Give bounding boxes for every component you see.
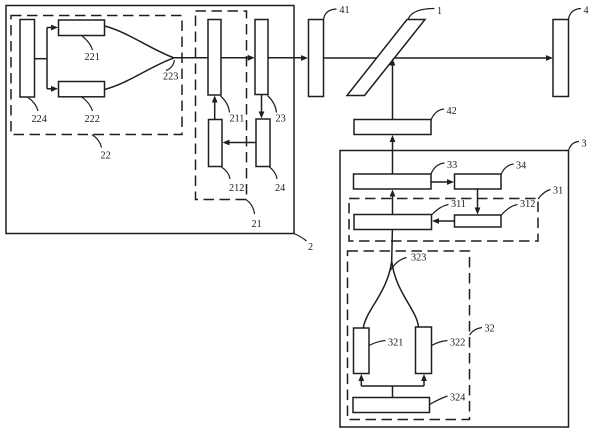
leader 224 xyxy=(28,98,38,112)
arrowhead into 23 xyxy=(248,55,255,61)
svg-text:22: 22 xyxy=(101,151,111,162)
svg-text:211: 211 xyxy=(230,114,245,125)
svg-text:311: 311 xyxy=(451,199,466,210)
svg-text:221: 221 xyxy=(85,52,100,63)
coupler 223 xyxy=(105,26,174,90)
leader 34 xyxy=(501,164,514,175)
leader 211 xyxy=(221,96,230,113)
block 24 xyxy=(256,119,270,167)
dashed box 21 xyxy=(196,11,247,200)
wire: main line 41 to 4 xyxy=(324,57,548,59)
coupler 323 xyxy=(363,230,418,328)
wire: stub from 224 to branch xyxy=(35,58,48,60)
block 33 xyxy=(354,174,432,189)
arrowhead down into 24 xyxy=(259,112,265,119)
leader 1 xyxy=(408,9,435,20)
leader 212 xyxy=(222,167,231,179)
leader 31 xyxy=(538,190,551,200)
wire: 24 to 212 xyxy=(229,142,257,144)
block 42 xyxy=(354,120,431,135)
svg-text:324: 324 xyxy=(450,393,465,404)
leader 2 xyxy=(294,234,307,242)
wire: branch to 222 xyxy=(47,88,52,90)
block 221 xyxy=(59,20,105,36)
block 322 xyxy=(416,327,432,374)
svg-text:222: 222 xyxy=(85,114,100,125)
svg-text:323: 323 xyxy=(411,253,426,264)
leader 21 xyxy=(246,200,255,215)
arrowhead up into 33 xyxy=(390,190,396,197)
leader 22 xyxy=(92,135,102,148)
block 4 xyxy=(553,20,569,97)
dashed box 22 xyxy=(11,16,182,135)
svg-text:34: 34 xyxy=(516,161,526,172)
svg-text:23: 23 xyxy=(276,114,286,125)
leader 223 xyxy=(166,60,175,71)
arrowhead up into 211 xyxy=(212,96,218,103)
svg-text:224: 224 xyxy=(32,114,47,125)
svg-text:322: 322 xyxy=(450,338,465,349)
block 324 xyxy=(353,398,430,413)
box 2 xyxy=(6,6,294,234)
leader 32 xyxy=(470,328,483,336)
leader 24 xyxy=(270,167,278,179)
arrowhead into 311 from 312 xyxy=(432,218,439,224)
leader 221 xyxy=(82,36,93,50)
block 321 xyxy=(354,328,370,374)
block 311 xyxy=(354,215,432,230)
beam splitter 1 xyxy=(347,20,425,96)
wire: 23 down to 24 xyxy=(261,95,263,113)
arrowhead into 221 xyxy=(51,25,58,31)
wire: 312 to 311 xyxy=(438,220,455,222)
wire: branch to 221 xyxy=(47,27,52,29)
arrowhead up into main line from 42 xyxy=(390,59,396,66)
block 222 xyxy=(59,82,105,97)
wire: main line 223 to 23 xyxy=(173,57,249,59)
arrowhead into 34 xyxy=(447,179,454,185)
block 212 xyxy=(209,120,223,167)
arrowhead down into 312 xyxy=(475,208,481,215)
leader 41 xyxy=(324,9,337,20)
wire: branch vertical xyxy=(46,28,48,89)
svg-text:1: 1 xyxy=(437,6,442,17)
svg-text:21: 21 xyxy=(252,219,262,230)
block 41 xyxy=(309,20,324,97)
leader 323 xyxy=(390,258,407,272)
leader 311 xyxy=(432,205,449,216)
svg-text:312: 312 xyxy=(520,199,535,210)
wire: 33 to 42 xyxy=(392,141,394,174)
dashed box 32 xyxy=(348,251,470,420)
leader 3 xyxy=(569,142,580,151)
wire: 311 to 33 xyxy=(392,195,394,215)
svg-text:42: 42 xyxy=(447,106,457,117)
svg-text:4: 4 xyxy=(584,6,589,17)
svg-text:321: 321 xyxy=(388,338,403,349)
wire: 324 tee xyxy=(361,380,424,398)
block 23 xyxy=(255,20,268,95)
svg-text:32: 32 xyxy=(485,324,495,335)
svg-text:2: 2 xyxy=(308,242,313,253)
arrowhead into 41 xyxy=(301,55,308,61)
svg-text:212: 212 xyxy=(229,183,244,194)
leader 324 xyxy=(430,396,448,405)
svg-text:223: 223 xyxy=(163,72,178,83)
leader 33 xyxy=(431,163,445,174)
svg-text:3: 3 xyxy=(582,139,587,150)
svg-text:24: 24 xyxy=(275,183,285,194)
wire: 33 to 34 xyxy=(431,181,448,183)
leader 322 xyxy=(432,341,448,346)
svg-text:33: 33 xyxy=(447,160,457,171)
block 312 xyxy=(455,215,502,227)
dashed box 31 xyxy=(349,199,538,242)
wire: main line 23 to 41 xyxy=(268,57,302,59)
arrowhead up into 42 xyxy=(390,135,396,142)
wire: vertical beam 42 to splitter xyxy=(392,64,394,120)
wire: 212 up to 211 xyxy=(214,102,216,120)
leader 222 xyxy=(82,97,93,111)
leader 312 xyxy=(501,205,518,216)
arrowhead into 4 xyxy=(546,55,553,61)
wire: 34 down to 312 xyxy=(477,189,479,209)
block 224 xyxy=(20,20,35,98)
svg-text:31: 31 xyxy=(553,186,563,197)
arrowhead into 212 from 24 xyxy=(223,140,230,146)
leader 42 xyxy=(431,109,444,120)
leader 321 xyxy=(369,341,386,346)
block 211 xyxy=(208,20,221,96)
arrowhead up into 321 xyxy=(358,374,364,381)
arrowhead up into 322 xyxy=(421,374,427,381)
leader 4 xyxy=(569,9,582,20)
leader 23 xyxy=(268,96,277,113)
box 3 xyxy=(340,151,569,428)
block 34 xyxy=(455,174,502,189)
arrowhead into 222 xyxy=(51,86,58,92)
svg-text:41: 41 xyxy=(339,5,349,16)
